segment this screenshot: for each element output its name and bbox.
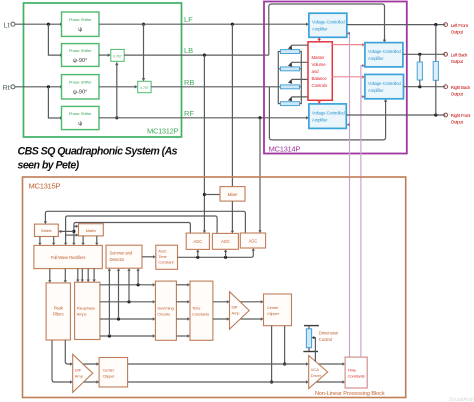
- AGC block 3: [240, 233, 265, 248]
- svg-text:0.707: 0.707: [140, 86, 148, 90]
- svg-text:Voltage-Controlled: Voltage-Controlled: [312, 20, 345, 25]
- wire rectifier output 1 to peak filters: [49, 269, 51, 282]
- potentiometer P4: [281, 102, 300, 106]
- svg-text:Time: Time: [192, 306, 201, 311]
- svg-text:Driver: Driver: [311, 373, 322, 378]
- svg-text:Summer and: Summer and: [110, 250, 133, 255]
- node LB tap: [203, 54, 206, 57]
- arrow into center clipper 2 upper: [96, 362, 99, 365]
- svg-text:Phase Shifter: Phase Shifter: [69, 80, 92, 85]
- wiper line P4: [290, 97, 308, 99]
- op-amp VCA1 voltage-controlled amplifier: [309, 13, 347, 37]
- IC boundary MC1314P: [264, 2, 407, 154]
- IC boundary MC1312P: [24, 3, 182, 137]
- svg-text:Right Front: Right Front: [451, 113, 471, 118]
- svg-text:Lt: Lt: [4, 21, 10, 30]
- svg-text:Clipper: Clipper: [267, 311, 280, 316]
- op-amp VCA4 voltage-controlled amplifier: [309, 104, 346, 128]
- potentiometer chain right bus: [300, 52, 302, 104]
- node on RF line feeding G1: [115, 116, 118, 119]
- node row2 tap to summer: [127, 300, 130, 303]
- svg-text:Circuits: Circuits: [157, 312, 170, 317]
- wire RB row (G2 out to pot bus): [151, 86, 278, 88]
- potentiometer chain left bus: [278, 52, 280, 104]
- svg-text:MC1312P: MC1312P: [147, 127, 179, 136]
- output terminal right back: [444, 85, 448, 89]
- peak filters block: [46, 283, 70, 340]
- dimension control bottom rail: [303, 351, 318, 353]
- AGC block 2: [212, 233, 238, 249]
- output terminal left front: [444, 23, 448, 27]
- svg-text:0.707: 0.707: [113, 54, 121, 58]
- svg-text:Constants: Constants: [192, 312, 209, 317]
- node R1 bottom: [418, 85, 421, 88]
- wire VCA2 output to left back terminal: [403, 53, 445, 55]
- node row1 tap to summer: [137, 283, 140, 286]
- svg-text:ψ-90°: ψ-90°: [73, 58, 87, 64]
- wire line B (AGC2 input tap to rectifiers): [66, 216, 218, 244]
- output terminal left back: [444, 52, 448, 56]
- wire summing to time constants row4: [176, 335, 188, 337]
- summing circuits block: [155, 281, 176, 340]
- arrow into G2 left: [135, 85, 138, 88]
- wire rectifier output 5 to paraphase: [87, 269, 89, 282]
- svg-text:Mixer: Mixer: [228, 192, 238, 197]
- svg-text:Matrix: Matrix: [86, 228, 96, 233]
- wire summing to time constants row3: [176, 318, 188, 320]
- svg-text:AGC: AGC: [158, 248, 167, 253]
- node row4 tap to summer: [108, 334, 111, 337]
- wire mixer output to AGC2: [231, 201, 233, 233]
- svg-text:Output: Output: [451, 120, 464, 125]
- svg-text:AGC: AGC: [221, 239, 230, 244]
- wire M2 output 1 to rectifiers: [82, 236, 84, 244]
- svg-text:Amps: Amps: [77, 312, 87, 317]
- arrow into diff amp 1 upper: [227, 300, 230, 303]
- wiper line P2: [290, 62, 308, 64]
- svg-text:CBS SQ Quadraphonic System (As: CBS SQ Quadraphonic System (As: [18, 146, 178, 158]
- svg-text:Peak: Peak: [54, 306, 64, 311]
- arrow into center clipper 2 lower: [96, 380, 99, 383]
- svg-text:RF: RF: [184, 109, 194, 118]
- arrow into VCA3 bottom: [384, 99, 387, 102]
- wire dimension pot to bottom rail: [308, 348, 310, 352]
- svg-text:RB: RB: [184, 78, 194, 87]
- node R1 top: [418, 53, 421, 56]
- node LF tap: [231, 23, 234, 26]
- arrow into M1 right: [58, 230, 61, 233]
- summer and detector block: [106, 245, 142, 268]
- full-wave rectifiers block: [34, 245, 102, 268]
- svg-text:Center: Center: [103, 368, 115, 373]
- wire Lt to PS1: [15, 23, 62, 25]
- svg-text:and: and: [312, 69, 320, 74]
- wire line C (AGC1 input tap to rectifiers): [74, 223, 190, 245]
- svg-text:LF: LF: [184, 15, 193, 24]
- plum line 1 branch arrow into VCA4 right: [348, 124, 350, 126]
- wire paraphase row 1 to summing: [100, 284, 154, 286]
- wire VCA4 output to right front terminal: [346, 114, 445, 116]
- wire line A (AGC3 input tap to matrix M1): [45, 211, 245, 233]
- svg-text:Balance: Balance: [312, 76, 328, 81]
- svg-text:Clipper: Clipper: [103, 374, 116, 379]
- wire LF drop to mixer top: [231, 24, 233, 186]
- arrow into NLPB time constants upper: [342, 362, 345, 365]
- svg-text:Time: Time: [158, 254, 167, 259]
- dimension control top rail: [304, 325, 319, 327]
- center clipper 2 block: [99, 358, 128, 388]
- svg-text:VCA: VCA: [311, 367, 320, 372]
- svg-text:Amplifier: Amplifier: [312, 117, 328, 122]
- wire rectifier output 3 to paraphase: [77, 269, 79, 282]
- wire M1 output 1 to rectifiers: [39, 237, 41, 245]
- wire PS2 output to 0.707 block G1: [99, 54, 110, 56]
- control wire master volume to VCA2: [332, 44, 363, 46]
- svg-text:Summing: Summing: [157, 306, 173, 311]
- arrow into M2 lower left: [76, 233, 79, 236]
- wire feedback up into AGC1: [197, 251, 199, 257]
- svg-text:AGC: AGC: [194, 239, 203, 244]
- svg-text:Time: Time: [348, 368, 357, 373]
- op-amp VCA3 voltage-controlled amplifier: [365, 74, 404, 98]
- arrow into G1 bottom: [115, 62, 118, 65]
- svg-text:Matrix: Matrix: [41, 228, 51, 233]
- wire row2 tap up to summer bottom: [128, 270, 130, 302]
- svg-text:ψ: ψ: [78, 121, 82, 127]
- wire line C branch to M2 upper input: [74, 225, 77, 227]
- svg-text:Diff: Diff: [75, 368, 82, 373]
- VCA driver triangle: [309, 356, 328, 389]
- time constants block (middle): [190, 281, 213, 340]
- wire master volume to VCA4: [318, 99, 320, 102]
- resistor R1 back blend: [417, 54, 422, 86]
- node R2 top: [434, 23, 437, 26]
- svg-text:Non-Linear Processing Block: Non-Linear Processing Block: [315, 391, 385, 397]
- arrow LF into VCA1 left: [306, 23, 309, 26]
- wire paraphase row 4 to summing: [100, 335, 154, 337]
- wire paraphase row 3 to summing: [100, 318, 154, 320]
- svg-text:SoundAndVis: SoundAndVis: [449, 397, 474, 402]
- arrow line C into rectifiers top: [72, 243, 75, 246]
- wire row4 tap up to summer bottom: [108, 270, 110, 336]
- mixer block: [220, 187, 245, 202]
- node RF tap: [258, 116, 261, 119]
- gain block G2 0.707: [138, 81, 151, 92]
- wire rectifier output 6 to paraphase: [93, 269, 95, 282]
- svg-text:Right Back: Right Back: [451, 85, 471, 90]
- wire M1 output 2 to rectifiers: [53, 237, 55, 245]
- arrow into NLPB time constants lower: [342, 380, 345, 383]
- wire rectifier output 4 to paraphase: [81, 269, 83, 282]
- wire feedback up into AGC2: [225, 251, 227, 257]
- wire LB row (G1 out to riser): [124, 54, 269, 56]
- arrow into VCA driver upper: [306, 362, 309, 365]
- arrow into AGC2 top: [231, 231, 234, 234]
- wire time constants to diff amp 1 lower: [213, 318, 262, 320]
- wire Lt branch down to PS2: [48, 24, 61, 55]
- node feedback to AGC2: [224, 256, 227, 259]
- svg-text:Paraphase: Paraphase: [77, 306, 96, 311]
- svg-text:Full-Wave Rectifiers: Full-Wave Rectifiers: [51, 255, 86, 260]
- wire RF tap up into G1 bottom: [116, 63, 118, 118]
- svg-text:Phase Shifter: Phase Shifter: [69, 17, 92, 22]
- wire M2 output 2 to rectifiers: [96, 236, 98, 244]
- svg-text:LB: LB: [184, 46, 193, 55]
- node mixer input tap: [203, 193, 206, 196]
- wire row3 tap up to summer bottom: [118, 270, 120, 319]
- svg-text:Dimension: Dimension: [319, 331, 339, 336]
- svg-text:Left Front: Left Front: [451, 23, 469, 28]
- wire clipper1 output A down: [271, 326, 273, 382]
- control wire master volume to VCA3: [332, 76, 363, 78]
- diff amp 1 triangle: [230, 292, 250, 330]
- svg-text:Detector: Detector: [110, 257, 125, 262]
- arrow wiper into pot: [312, 336, 315, 339]
- wire row1 tap up to summer bottom: [137, 270, 139, 285]
- svg-text:Voltage-Controlled: Voltage-Controlled: [368, 49, 401, 54]
- node Lt branch: [47, 23, 50, 26]
- svg-text:Amplifier: Amplifier: [312, 27, 328, 32]
- svg-text:MC1314P: MC1314P: [269, 145, 301, 154]
- arrow into center clipper 1 upper: [261, 300, 264, 303]
- node PS4 input pin: [60, 117, 63, 120]
- svg-text:ψ: ψ: [78, 27, 82, 33]
- wire LB riser to VCA2 top: [269, 4, 385, 55]
- output terminal right front: [444, 113, 448, 117]
- arrow into diff amp 2 lower: [70, 380, 73, 383]
- svg-text:Output: Output: [451, 91, 464, 96]
- node line C to M1 branch: [72, 230, 75, 233]
- dimension control potentiometer: [306, 329, 311, 348]
- svg-text:ψ-90°: ψ-90°: [73, 90, 87, 96]
- wire PS3 output to 0.707 block G2: [99, 86, 136, 88]
- svg-text:Constant: Constant: [158, 260, 174, 265]
- center clipper 1 block: [264, 294, 292, 326]
- phase shifter PS3: [62, 75, 100, 99]
- master volume and balance controls block: [308, 42, 332, 101]
- svg-text:Amplifier: Amplifier: [368, 56, 384, 61]
- svg-text:Controls: Controls: [312, 83, 328, 88]
- wire LF tap down into G2 top: [143, 24, 145, 80]
- phase shifter PS1: [62, 12, 100, 36]
- arrow into center clipper 1 lower: [261, 317, 264, 320]
- potentiometer P3: [281, 85, 300, 89]
- svg-text:Voltage-Controlled: Voltage-Controlled: [312, 110, 345, 115]
- matrix block M1: [35, 224, 59, 236]
- wire rail to dimension pot: [308, 326, 310, 329]
- wire peak filter output 2 to upper line: [65, 340, 344, 364]
- wire Rt branch down to PS4: [48, 87, 61, 118]
- gain block G1 0.707: [111, 49, 124, 61]
- plum line 2 branch arrow into VCA3 left: [361, 96, 363, 98]
- wire master volume to VCA1: [318, 39, 320, 42]
- time constants block (non-linear processing): [345, 357, 367, 388]
- potentiometer P1: [281, 50, 300, 54]
- op-amp VCA2 voltage-controlled amplifier: [365, 43, 403, 67]
- AGC feedback wire: [178, 250, 254, 257]
- svg-text:Control: Control: [319, 337, 332, 342]
- arrow into diff amp 2 upper: [70, 362, 73, 365]
- wire VCA1 output to left front terminal: [347, 24, 446, 26]
- phase shifter PS4: [62, 106, 100, 129]
- wire rectifier output 2 to peak filters: [64, 269, 66, 282]
- svg-text:Center: Center: [267, 305, 279, 310]
- node PS3 input pin: [60, 85, 63, 88]
- wire LF row (PS1 out to VCA1 in): [99, 23, 308, 25]
- phase shifter PS2: [62, 44, 100, 67]
- svg-text:Phase Shifter: Phase Shifter: [69, 48, 92, 53]
- wire summer to AGC time constant: [142, 256, 155, 258]
- wire VCA3 output to right back terminal: [404, 86, 446, 88]
- arrow into VCA driver lower: [306, 380, 309, 383]
- wiper line P1: [290, 45, 308, 47]
- paraphase amps block: [75, 282, 100, 339]
- wire RB descent to VCA3 bottom: [269, 87, 385, 140]
- arrow into M1 top: [44, 221, 47, 224]
- dimension wiper wire to VCA driver: [314, 338, 316, 362]
- wire summing to time constants row2: [176, 301, 188, 303]
- gain control plum line 1 (time constants to VCA1 and VCA4): [348, 33, 350, 357]
- arrow into G1 left: [108, 53, 111, 56]
- potentiometer P2: [281, 67, 300, 71]
- wire RF row (PS4 out to VCA4 in): [99, 117, 308, 119]
- node PS1 input pin: [60, 23, 63, 26]
- svg-text:Phase Shifter: Phase Shifter: [69, 111, 92, 116]
- resistor R2 front blend: [433, 25, 438, 115]
- wire clipper1 output B down: [284, 326, 286, 364]
- wire RF drop to AGC3: [259, 118, 261, 233]
- svg-text:Rt: Rt: [3, 83, 10, 92]
- matrix block M2: [79, 224, 104, 236]
- AGC block 1: [186, 233, 209, 249]
- svg-text:Output: Output: [451, 29, 464, 34]
- node R2 bottom: [434, 113, 437, 116]
- wire tap to mixer left: [204, 194, 220, 196]
- svg-text:Master: Master: [312, 55, 325, 60]
- svg-text:Volume: Volume: [312, 62, 327, 67]
- node on LF line feeding G2: [142, 23, 145, 26]
- node Rt branch: [47, 85, 50, 88]
- wire paraphase row 2 to summing: [100, 301, 154, 303]
- wiper line P3: [290, 79, 308, 81]
- node row3 tap to summer: [117, 317, 120, 320]
- AGC time constant block: [156, 245, 178, 269]
- wire peak filter output 1 to lower line: [52, 340, 344, 382]
- arrow into VCA2 top: [383, 40, 386, 43]
- node feedback to AGC1: [196, 256, 199, 259]
- wire Rt to PS3: [15, 86, 62, 88]
- svg-text:AGC: AGC: [249, 239, 258, 244]
- gain control plum line 2 (time constants to VCA2 and VCA3): [361, 66, 363, 358]
- svg-text:Output: Output: [451, 59, 464, 64]
- node on upper driver line: [283, 362, 286, 365]
- svg-text:Voltage-Controlled: Voltage-Controlled: [368, 81, 401, 86]
- node on lower driver line: [270, 380, 273, 383]
- svg-text:MC1315P: MC1315P: [29, 182, 61, 191]
- wire line B branch to M2 lower input: [66, 234, 78, 236]
- svg-text:Filters: Filters: [53, 312, 63, 317]
- wire branch to M1 right input: [60, 230, 74, 232]
- arrow RF into VCA4 left: [306, 116, 309, 119]
- svg-text:Left Back: Left Back: [451, 53, 469, 58]
- IC boundary MC1315P: [23, 177, 406, 398]
- diff amp 2 triangle: [73, 354, 93, 392]
- svg-text:Amp: Amp: [232, 311, 241, 316]
- wire summing to time constants row1: [176, 284, 188, 286]
- arrow into G2 top: [142, 78, 145, 81]
- svg-text:Constants: Constants: [348, 374, 365, 379]
- svg-text:seen by Pete): seen by Pete): [18, 160, 80, 172]
- svg-text:Amp: Amp: [75, 374, 84, 379]
- arrow into M2 upper left: [76, 225, 79, 228]
- arrow into AGC3 top: [258, 230, 261, 233]
- node PS2 input pin: [60, 54, 63, 57]
- arrow into diff amp 1 lower: [227, 317, 230, 320]
- wire time constants to diff amp 1 upper: [213, 301, 262, 303]
- svg-text:Amplifier: Amplifier: [368, 88, 384, 93]
- arrow line B into rectifiers top: [64, 243, 67, 246]
- wire LB drop to AGC1: [203, 55, 205, 232]
- arrow into AGC1 top: [203, 230, 206, 233]
